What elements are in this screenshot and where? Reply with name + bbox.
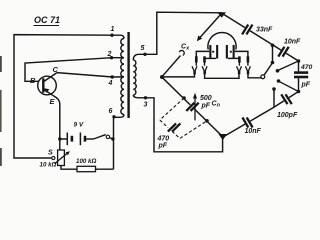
transistor type label OC71: [34, 15, 61, 26]
svg-text:10nF: 10nF: [245, 128, 262, 135]
svg-text:470: 470: [157, 136, 170, 143]
switch arm: [264, 64, 272, 75]
wire S2 to right node: [279, 61, 299, 70]
plug pin 1: [195, 56, 198, 65]
node terminal 4: [111, 75, 114, 78]
svg-text:5: 5: [141, 45, 145, 52]
node right top junction: [297, 59, 301, 63]
variable capacitor Cx rotor arc: [208, 33, 236, 50]
wire emitter down to battery junction: [54, 96, 60, 150]
wire Y4 to switch contact: [248, 74, 261, 77]
wire S3 to lower right node: [280, 82, 299, 92]
socket Y4: [245, 66, 250, 74]
resistor 100k: [77, 166, 96, 171]
wire 470pF right branch: [298, 61, 300, 92]
transformer secondary winding: [133, 54, 145, 98]
switch contact circle: [261, 75, 265, 79]
wire base network: [25, 58, 112, 82]
node bridge bottom vertex: [219, 134, 228, 140]
transformer core: [127, 32, 129, 118]
wire terminal 6 vertical down to resistor line: [113, 117, 115, 169]
switch in battery line: [94, 135, 113, 139]
Cx clip hook: [179, 50, 184, 55]
svg-text:500: 500: [200, 95, 212, 102]
capacitor 33nF: [241, 24, 253, 35]
socket Y2: [202, 66, 207, 74]
svg-text:3: 3: [144, 102, 148, 109]
svg-text:B: B: [30, 76, 36, 85]
rotor arm from top vertex to variable capacitor: [197, 14, 222, 42]
capacitor Cn 500pF trimmer: [185, 93, 199, 121]
switch S contact: [52, 156, 55, 159]
svg-text:Cn: Cn: [212, 101, 221, 109]
transistor Q1 OC71: [38, 73, 57, 96]
svg-text:OC 71: OC 71: [34, 15, 60, 25]
node battery junction: [58, 137, 61, 140]
capacitor 10nF lower: [241, 117, 253, 128]
svg-text:10 kΩ: 10 kΩ: [40, 162, 57, 169]
svg-text:pF: pF: [158, 143, 168, 150]
capacitor 470pF right: [294, 71, 308, 78]
wire top-right arm (to 33nF,10nF): [222, 13, 299, 61]
node bridge top vertex: [217, 12, 226, 18]
socket Y1: [192, 66, 197, 74]
wire pot bottom to resistor: [61, 166, 77, 170]
transformer primary winding: [112, 35, 125, 117]
node switch point S3: [277, 79, 281, 83]
svg-text:S: S: [48, 150, 53, 157]
wire switch riser: [272, 45, 274, 62]
wire S4 down to lower arm: [273, 89, 275, 107]
node terminal 1: [110, 34, 113, 37]
potentiometer 10k: [55, 150, 70, 166]
svg-text:Cx: Cx: [181, 44, 190, 52]
plug pin 3: [238, 56, 241, 65]
wire secondary bottom to bridge bottom: [146, 98, 223, 152]
dashed link with 470pF: [160, 98, 207, 138]
svg-text:9 V: 9 V: [74, 122, 84, 129]
plug pin 2: [203, 56, 206, 65]
node right bottom junction: [297, 90, 301, 94]
svg-text:10nF: 10nF: [284, 39, 301, 46]
node Cn arm lower tap: [205, 119, 209, 123]
node terminal 2: [110, 56, 113, 59]
svg-text:pF: pF: [301, 82, 311, 89]
node switch to vertical: [111, 137, 114, 140]
node terminal 5: [143, 53, 146, 56]
node switch point S1: [271, 61, 275, 65]
svg-text:pF: pF: [201, 103, 211, 110]
svg-text:6: 6: [109, 108, 113, 115]
wire vertex to Cx clip: [162, 56, 180, 77]
svg-text:4: 4: [108, 80, 113, 87]
plug pin 4: [247, 56, 250, 65]
wire resistor right: [96, 168, 114, 170]
wire collector to terminal 4: [57, 73, 113, 77]
wire secondary top to bridge top: [145, 12, 222, 54]
wire lower-right arm: [223, 92, 299, 138]
capacitor 10nF upper: [277, 46, 289, 57]
capacitor 100pF: [280, 93, 292, 104]
wire Cn arm (left vertex to bottom vertex): [163, 78, 223, 137]
Cx gang left section: [196, 45, 218, 59]
Cx gang right section: [226, 45, 248, 59]
battery B1 9V: [60, 133, 94, 146]
node terminal 6: [112, 115, 115, 118]
wire socket link Y2-Y3: [205, 74, 239, 78]
node switch point S2: [276, 69, 280, 73]
svg-text:33nF: 33nF: [256, 27, 273, 34]
node bridge left vertex: [160, 75, 164, 79]
wire vertex to socket Y1: [162, 74, 195, 77]
node junction top diagonal to switch riser: [271, 44, 275, 48]
svg-text:100 kΩ: 100 kΩ: [76, 158, 96, 165]
socket Y3: [237, 66, 242, 74]
svg-text:1: 1: [111, 26, 115, 33]
wire base bias loop (terminal1 - left side - bottom to switch S): [14, 35, 112, 158]
node Cn arm upper tap: [182, 96, 186, 100]
node terminal 3: [144, 96, 147, 99]
svg-text:100pF: 100pF: [277, 112, 298, 119]
svg-text:2: 2: [107, 51, 112, 58]
svg-text:470: 470: [300, 64, 313, 71]
node switch point S4: [272, 87, 276, 91]
